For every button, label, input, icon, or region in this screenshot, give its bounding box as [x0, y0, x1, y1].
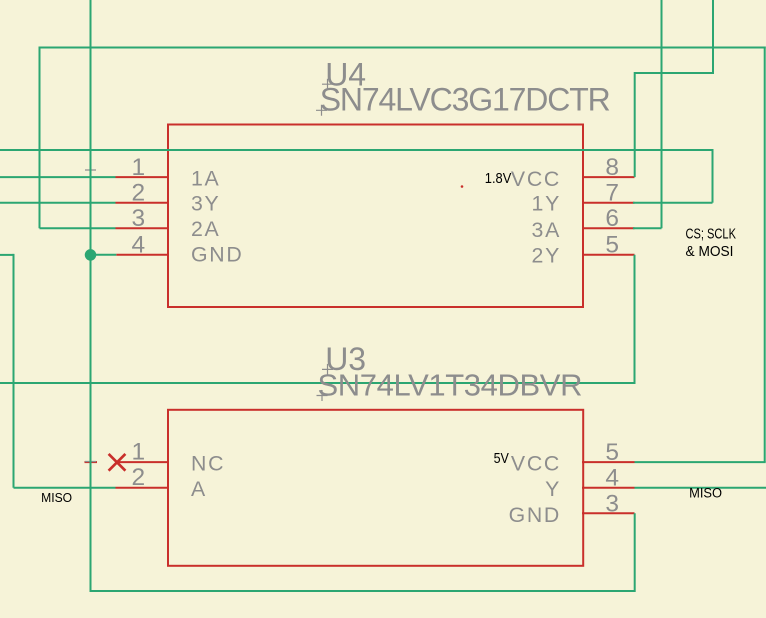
- svg-text:3A: 3A: [532, 218, 561, 242]
- svg-text:A: A: [191, 477, 207, 501]
- svg-text:VCC: VCC: [511, 452, 561, 476]
- svg-text:4: 4: [132, 232, 146, 259]
- svg-text:1: 1: [132, 439, 146, 466]
- svg-text:2: 2: [132, 464, 146, 491]
- svg-text:Y: Y: [545, 477, 561, 501]
- svg-text:5: 5: [605, 439, 619, 466]
- svg-text:NC: NC: [191, 452, 225, 476]
- svg-text:MISO: MISO: [689, 485, 722, 500]
- svg-text:4: 4: [605, 465, 619, 492]
- svg-text:2: 2: [132, 180, 146, 207]
- svg-text:6: 6: [605, 205, 619, 232]
- svg-text:& MOSI: & MOSI: [686, 244, 734, 260]
- svg-text:2Y: 2Y: [532, 244, 561, 268]
- svg-text:SN74LVC3G17DCTR: SN74LVC3G17DCTR: [320, 82, 611, 118]
- svg-text:2A: 2A: [191, 217, 220, 241]
- svg-text:1A: 1A: [191, 167, 220, 191]
- svg-text:GND: GND: [509, 503, 561, 527]
- svg-text:3Y: 3Y: [191, 192, 220, 216]
- svg-text:CS; SCLK: CS; SCLK: [686, 226, 737, 242]
- svg-text:MISO: MISO: [41, 490, 72, 505]
- svg-text:SN74LV1T34DBVR: SN74LV1T34DBVR: [318, 368, 583, 403]
- svg-text:5V: 5V: [494, 451, 510, 467]
- svg-text:VCC: VCC: [511, 167, 561, 191]
- svg-text:1: 1: [132, 154, 146, 181]
- svg-text:3: 3: [605, 490, 619, 517]
- svg-text:7: 7: [605, 180, 619, 207]
- svg-text:1Y: 1Y: [532, 191, 561, 215]
- svg-text:3: 3: [132, 205, 146, 232]
- svg-text:8: 8: [605, 154, 619, 181]
- svg-text:GND: GND: [191, 243, 243, 267]
- svg-text:5: 5: [605, 232, 619, 259]
- svg-text:1.8V: 1.8V: [485, 171, 512, 187]
